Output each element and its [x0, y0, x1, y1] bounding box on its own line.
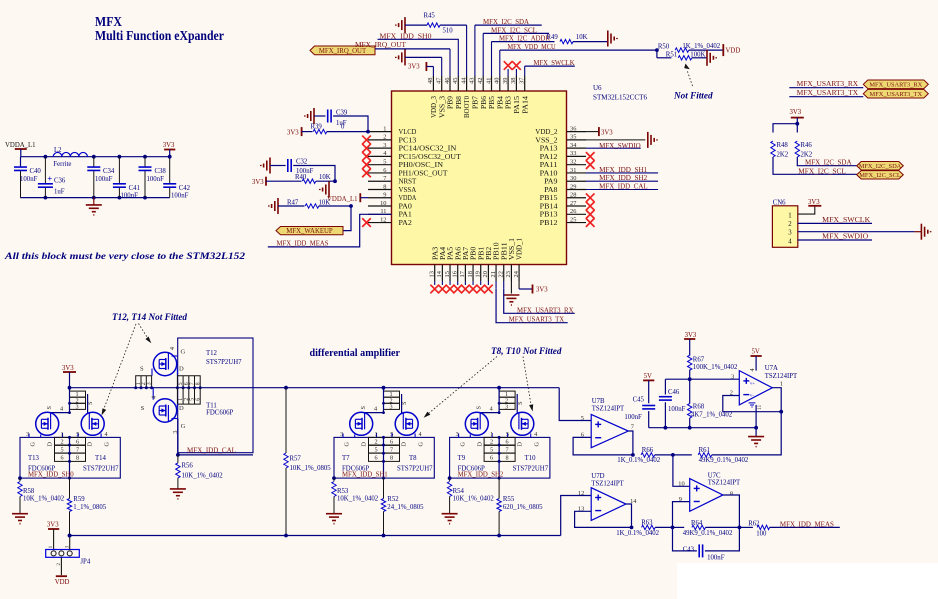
wire T12 source into cells	[151, 369, 153, 376]
svg-text:6: 6	[506, 439, 509, 446]
wire T11 pin4 from rail	[152, 388, 154, 400]
svg-text:T9: T9	[458, 455, 466, 462]
svg-text:5: 5	[506, 431, 509, 438]
node box corner T13/T14	[18, 476, 22, 480]
wire MFX_IDD_SH0 pin45	[378, 38, 459, 40]
svg-text:4: 4	[490, 406, 493, 413]
svg-text:8: 8	[390, 455, 393, 462]
IC right pin stubs	[567, 131, 587, 133]
ground R58	[12, 513, 28, 515]
arrow to T12	[139, 324, 148, 338]
white page margin bottom-right	[677, 563, 938, 599]
svg-text:VDDA_L1: VDDA_L1	[327, 196, 358, 203]
resistor R52	[381, 499, 385, 512]
svg-text:MFX_IDD_CAL: MFX_IDD_CAL	[599, 184, 648, 191]
wire gate row T9/T10	[498, 388, 500, 413]
wire R45 to BOOT0 pin44	[440, 24, 467, 26]
node bottom rail T13/T14	[68, 534, 72, 538]
svg-text:D: D	[179, 405, 184, 412]
svg-text:2: 2	[490, 439, 493, 446]
svg-text:G: G	[344, 442, 351, 447]
transistor T14	[81, 412, 104, 435]
no-connect X right pins 33,32,28,27,26,25	[586, 152, 595, 161]
wire bottom rail	[70, 535, 561, 537]
wire gate right T9/T10	[516, 394, 518, 414]
wire U7A Vminus to ground	[755, 405, 757, 437]
svg-text:24_1%_0805: 24_1%_0805	[387, 504, 424, 511]
svg-text:MFX_WAKEUP: MFX_WAKEUP	[286, 228, 333, 235]
port MFX_I2C_SDA	[857, 162, 904, 171]
svg-text:MFX_USART3_TX: MFX_USART3_TX	[870, 91, 923, 98]
svg-text:100K_1%_0402: 100K_1%_0402	[693, 364, 738, 371]
svg-text:9: 9	[679, 496, 682, 503]
svg-text:PA2: PA2	[399, 219, 413, 227]
wire MFX_VDD_MCU pin40	[500, 49, 657, 51]
power port VDD (R50)	[722, 44, 724, 56]
svg-text:U7C: U7C	[708, 472, 721, 479]
wire JP4 pin2 to VDD	[60, 557, 62, 575]
op-amp U7D	[591, 488, 626, 521]
wire MFX_SWCLK pin37	[525, 65, 575, 67]
svg-text:C42: C42	[179, 185, 191, 192]
svg-text:R53: R53	[337, 488, 349, 495]
svg-text:BOOT0: BOOT0	[463, 96, 471, 118]
pin grid boxes T9/T10	[484, 437, 515, 461]
svg-text:3V3: 3V3	[163, 142, 175, 149]
node box corner T7/T8	[332, 476, 336, 480]
svg-text:U7D: U7D	[591, 473, 604, 480]
wire T12 gate stub	[172, 355, 178, 357]
svg-text:R59: R59	[73, 496, 85, 503]
svg-text:PA15: PA15	[513, 95, 521, 113]
resistor R51 not fitted	[656, 50, 658, 58]
capacitor C32	[270, 165, 286, 167]
ground R56	[170, 488, 186, 490]
svg-text:G: G	[418, 442, 425, 447]
capacitor C40	[20, 157, 22, 167]
svg-text:MFX: MFX	[95, 14, 122, 29]
svg-text:MFX_USART3_RX: MFX_USART3_RX	[869, 82, 922, 89]
svg-text:R47: R47	[287, 200, 299, 207]
power port VDD (JP4)	[56, 575, 67, 577]
wire pin21 to MFX_USART3_TX	[496, 289, 568, 323]
port MFX_USART3_TX	[863, 89, 928, 98]
svg-text:0: 0	[341, 124, 345, 131]
inductor L2	[53, 152, 87, 156]
wire filter bottom rail	[20, 197, 169, 199]
svg-text:MFX_SWCLK: MFX_SWCLK	[822, 217, 870, 224]
svg-text:R66: R66	[642, 447, 654, 454]
transistor T13	[36, 412, 59, 435]
resistor R58	[19, 478, 21, 481]
resistor R47	[278, 205, 305, 207]
svg-text:12: 12	[578, 490, 584, 497]
port MFX_IRQ_OUT	[310, 46, 375, 55]
svg-text:C40: C40	[30, 168, 42, 175]
transistor T8	[395, 412, 418, 435]
svg-text:5: 5	[490, 446, 493, 453]
svg-text:R40: R40	[295, 174, 307, 181]
svg-text:1: 1	[788, 212, 791, 219]
svg-text:S: S	[401, 401, 408, 405]
resistor R62	[739, 526, 753, 528]
op-amp U7C	[690, 479, 723, 512]
power 3V3 pin36	[598, 127, 600, 136]
svg-text:PA9: PA9	[544, 178, 558, 186]
nodes rail at T12 left cells	[134, 386, 137, 389]
svg-text:R54: R54	[453, 488, 465, 495]
ground pin47	[404, 49, 406, 65]
ground pin35 VSS_2	[647, 132, 649, 148]
svg-text:Ferrite: Ferrite	[53, 161, 71, 168]
pin cells right of T12 (upper)	[177, 376, 200, 388]
svg-text:5V: 5V	[644, 373, 652, 380]
svg-text:TSZ124IPT: TSZ124IPT	[591, 480, 624, 487]
wire R46 to SDA port	[797, 157, 856, 166]
resistor R54	[449, 478, 451, 481]
wire U7D pin13 feedback	[575, 511, 632, 527]
svg-text:6: 6	[195, 398, 201, 401]
svg-text:3: 3	[456, 431, 459, 438]
resistor R57	[285, 388, 287, 453]
svg-text:PB6: PB6	[480, 95, 488, 109]
wire PA1 to MFX_IDD_MEAS	[268, 214, 392, 247]
ground for C32	[269, 158, 271, 174]
svg-text:10K_1%_0402: 10K_1%_0402	[182, 472, 224, 479]
svg-text:VDDA_L1: VDDA_L1	[5, 142, 36, 149]
capacitor C46	[664, 379, 666, 394]
wire gate right T7/T8	[401, 394, 403, 414]
svg-text:2: 2	[60, 439, 63, 446]
power 3V3 pin24	[519, 288, 532, 290]
node R63/R64/U7C pin9	[671, 526, 675, 530]
wire C39 to pin1 node	[333, 116, 368, 132]
svg-text:R45: R45	[424, 12, 436, 19]
svg-text:R50: R50	[658, 43, 670, 50]
pin grid boxes T7/T8	[369, 437, 400, 461]
wire bottom rail to U7D pin12	[561, 496, 592, 536]
svg-text:STS7P2UH7: STS7P2UH7	[206, 359, 242, 366]
ground for R49	[607, 31, 609, 47]
svg-text:D: D	[87, 442, 94, 447]
svg-text:VDD_3: VDD_3	[430, 96, 438, 118]
svg-text:100nF: 100nF	[20, 176, 38, 183]
wire pin22 to MFX_USART3_RX	[504, 289, 575, 314]
wire MFX_USART3_TX to port	[789, 96, 863, 98]
wire MFX_I2C_SCL pin42	[483, 32, 549, 34]
svg-text:100nF: 100nF	[95, 176, 113, 183]
svg-text:PA8: PA8	[544, 186, 558, 194]
IC bottom pin stubs	[434, 265, 436, 282]
svg-text:S: S	[87, 401, 94, 405]
CN6 pin2 wire MFX_SWCLK	[798, 222, 872, 224]
node U7D out	[630, 526, 634, 530]
svg-text:C36: C36	[54, 178, 66, 185]
svg-text:PA14: PA14	[521, 95, 529, 113]
CN6 pin4 wire MFX_SWDIO	[798, 239, 872, 241]
node I2C pullup top	[795, 122, 799, 126]
svg-text:PB12: PB12	[540, 219, 558, 227]
svg-text:2K2: 2K2	[777, 152, 789, 159]
no-connect X bottom pins 13-20	[430, 285, 439, 294]
svg-text:MFX_I2C_SDA: MFX_I2C_SDA	[859, 163, 902, 170]
svg-text:T12, T14 Not Fitted: T12, T14 Not Fitted	[112, 312, 187, 322]
node pin1 VLCD	[366, 130, 370, 134]
svg-text:10K: 10K	[576, 34, 588, 41]
svg-text:L2: L2	[54, 147, 62, 154]
pin leads into box T9/T10	[458, 434, 460, 438]
svg-text:100nF: 100nF	[171, 192, 189, 199]
capacitor C41	[118, 155, 122, 159]
transistor T7	[350, 412, 373, 435]
node U7A out	[779, 410, 783, 414]
op-amp U7A	[739, 371, 772, 405]
svg-text:VDD_2: VDD_2	[535, 128, 558, 136]
svg-text:10K_1%_0402: 10K_1%_0402	[23, 496, 65, 503]
node R67 bottom	[688, 377, 692, 381]
capacitor C34	[93, 157, 95, 167]
svg-text:3V3: 3V3	[287, 130, 299, 137]
ground for C39	[313, 108, 315, 124]
svg-text:v-: v-	[750, 393, 754, 398]
resistor R40	[266, 180, 302, 182]
svg-text:3: 3	[146, 382, 152, 385]
node rail feed T7/T8	[382, 386, 386, 390]
svg-text:4: 4	[419, 431, 422, 438]
svg-text:R55: R55	[503, 496, 515, 503]
svg-text:4: 4	[534, 431, 537, 438]
svg-text:MFX_IDD_SH2: MFX_IDD_SH2	[599, 175, 648, 182]
svg-text:MFX_IDD_CAL: MFX_IDD_CAL	[187, 447, 236, 454]
arrow to T10	[523, 357, 531, 405]
svg-text:T11: T11	[206, 403, 217, 410]
svg-text:MFX_I2C_SDA: MFX_I2C_SDA	[805, 160, 852, 167]
svg-text:S: S	[140, 365, 144, 372]
svg-text:3: 3	[172, 431, 179, 434]
svg-text:JP4: JP4	[80, 559, 90, 566]
svg-text:6: 6	[390, 439, 393, 446]
port MFX_I2C_SCL	[857, 171, 904, 179]
svg-text:1_1%_0805: 1_1%_0805	[73, 504, 106, 511]
svg-text:PB13: PB13	[540, 211, 558, 219]
svg-text:100nF: 100nF	[707, 555, 725, 562]
svg-text:8: 8	[730, 491, 733, 498]
svg-text:3: 3	[731, 373, 734, 380]
svg-text:STS7P2UH7: STS7P2UH7	[397, 465, 433, 472]
transistor T10	[511, 412, 534, 435]
resistor R66	[641, 453, 655, 457]
capacitor C38	[143, 155, 147, 159]
svg-text:1: 1	[61, 431, 64, 438]
svg-text:MFX_SWDIO: MFX_SWDIO	[599, 143, 641, 150]
svg-text:PA12: PA12	[540, 153, 558, 161]
svg-text:R62: R62	[748, 521, 760, 528]
svg-text:1uF: 1uF	[54, 189, 65, 196]
op-amp U7B	[591, 414, 628, 447]
capacitor C39	[314, 115, 326, 117]
svg-text:U6: U6	[593, 84, 602, 92]
svg-text:PB15: PB15	[540, 194, 558, 202]
svg-text:2K2: 2K2	[801, 152, 813, 159]
svg-text:5: 5	[581, 415, 584, 422]
svg-text:5: 5	[76, 431, 79, 438]
node U7B out	[631, 453, 635, 457]
svg-text:STS7P2UH7: STS7P2UH7	[83, 465, 119, 472]
svg-text:TSZ124IPT: TSZ124IPT	[765, 373, 798, 380]
outer box T13/T14	[20, 437, 120, 478]
wire gate right T13/T14	[87, 394, 89, 414]
wire U7B output	[628, 431, 633, 455]
ground pin8 VSSA	[328, 182, 330, 198]
wire U7C output	[723, 495, 740, 527]
svg-text:PH1/OSC_OUT: PH1/OSC_OUT	[399, 169, 449, 177]
resistor R46	[796, 124, 798, 133]
svg-text:G: G	[181, 348, 186, 355]
svg-text:R48: R48	[777, 142, 789, 149]
svg-text:100nF: 100nF	[147, 176, 165, 183]
svg-text:VSS_2: VSS_2	[535, 136, 558, 144]
svg-text:49K9_0.1%_0402: 49K9_0.1%_0402	[683, 530, 733, 537]
svg-text:Multi Function eXpander: Multi Function eXpander	[95, 28, 224, 43]
wire analog ground rail	[649, 427, 756, 429]
svg-text:C43: C43	[683, 546, 695, 553]
wire filter top rail	[21, 156, 170, 158]
svg-text:VSSA: VSSA	[399, 186, 417, 194]
svg-text:D: D	[361, 442, 368, 447]
svg-text:U7A: U7A	[765, 365, 778, 372]
svg-text:10K_1%_0805: 10K_1%_0805	[290, 465, 332, 472]
svg-text:3V3: 3V3	[808, 199, 820, 206]
svg-text:+: +	[47, 174, 52, 184]
wire top measure rail	[70, 387, 560, 389]
no-connect X pin 12	[362, 218, 371, 227]
svg-text:7: 7	[76, 446, 79, 453]
pin stack boxes T7/T8	[384, 391, 400, 409]
node R66/R61	[671, 453, 675, 457]
pin stack boxes T13/T14	[70, 391, 86, 409]
svg-text:5: 5	[60, 446, 63, 453]
capacitor C42	[169, 157, 171, 184]
svg-text:R64: R64	[691, 520, 703, 527]
wire center shunt column T7/T8	[383, 437, 385, 478]
node bottom rail T9/T10	[497, 534, 501, 538]
svg-text:4: 4	[105, 431, 108, 438]
jumper JP4 body	[46, 550, 80, 558]
svg-text:2: 2	[788, 221, 792, 228]
IC left pin stubs	[368, 131, 392, 133]
svg-text:4: 4	[169, 347, 176, 350]
svg-text:R39: R39	[311, 124, 323, 131]
node bottom rail T7/T8	[382, 534, 386, 538]
svg-text:G: G	[533, 442, 540, 447]
svg-text:D: D	[516, 442, 523, 447]
svg-text:4: 4	[749, 368, 756, 371]
svg-text:PA13: PA13	[540, 145, 558, 153]
capacitor C45	[648, 380, 650, 403]
wire MFX_IDD_MEAS output	[770, 526, 840, 528]
resistor R59	[67, 499, 71, 512]
svg-text:R46: R46	[801, 142, 813, 149]
svg-text:R52: R52	[387, 496, 399, 503]
capacitor C43	[673, 527, 697, 551]
svg-text:VDD_1: VDD_1	[516, 238, 524, 260]
svg-text:11: 11	[757, 405, 763, 410]
svg-text:G: G	[104, 442, 111, 447]
svg-text:C34: C34	[103, 168, 115, 175]
svg-text:R49: R49	[547, 34, 559, 41]
svg-text:R56: R56	[182, 462, 194, 469]
transistor T12	[153, 352, 176, 375]
svg-text:D: D	[476, 442, 483, 447]
svg-text:T12: T12	[206, 350, 218, 357]
svg-text:7: 7	[506, 446, 509, 453]
svg-text:5: 5	[374, 446, 377, 453]
svg-text:VDD: VDD	[726, 48, 741, 55]
ground glyph U7A pin11	[749, 403, 756, 407]
svg-text:S: S	[360, 406, 367, 410]
arrow to T8	[429, 357, 497, 414]
svg-text:VLCD: VLCD	[399, 128, 417, 136]
svg-text:T14: T14	[95, 455, 107, 462]
svg-text:PH0/OSC_IN: PH0/OSC_IN	[399, 161, 444, 169]
svg-text:G: G	[181, 423, 186, 430]
svg-text:D: D	[47, 442, 54, 447]
resistor R45	[405, 24, 427, 26]
svg-text:3V3: 3V3	[685, 332, 697, 339]
wire gate row T13/T14	[69, 388, 71, 413]
svg-text:R68: R68	[693, 403, 705, 410]
svg-text:3: 3	[788, 230, 792, 237]
resistor R39	[302, 131, 313, 133]
node U7C out	[738, 526, 742, 530]
resistor R64	[673, 526, 685, 528]
svg-text:MFX_I2C_SCL: MFX_I2C_SCL	[798, 168, 846, 175]
svg-text:CN6: CN6	[773, 199, 786, 206]
svg-text:MFX_USART3_RX: MFX_USART3_RX	[517, 307, 574, 314]
svg-text:R51: R51	[666, 51, 677, 58]
svg-text:1K_0.1%_0402: 1K_0.1%_0402	[616, 530, 659, 537]
svg-text:T7: T7	[342, 455, 350, 462]
wire U7A output	[772, 388, 781, 412]
node bottom rail R57	[284, 534, 288, 538]
wire MFX_I2C_SDA pin43	[475, 24, 542, 26]
CN6 pin3 wire to ground	[798, 231, 915, 233]
svg-text:C41: C41	[129, 185, 140, 192]
connector CN6 body	[772, 206, 797, 248]
svg-text:S: S	[46, 406, 53, 410]
ground R53	[326, 513, 342, 515]
svg-text:STS7P2UH7: STS7P2UH7	[513, 465, 549, 472]
svg-text:PC14/OSC32_IN: PC14/OSC32_IN	[399, 145, 457, 153]
wire pin47 to ground	[405, 56, 442, 58]
svg-text:R63: R63	[641, 519, 653, 526]
svg-text:C46: C46	[668, 389, 680, 396]
wire center shunt column T13/T14	[69, 437, 71, 478]
svg-text:MFX_USART3_RX: MFX_USART3_RX	[797, 81, 859, 88]
svg-text:3V3: 3V3	[62, 365, 74, 372]
svg-text:5V: 5V	[752, 349, 760, 356]
resistor R55	[497, 499, 501, 512]
svg-text:FDC606P: FDC606P	[206, 410, 233, 417]
node NRST pin7	[333, 179, 337, 183]
svg-text:8: 8	[506, 455, 509, 462]
pin leads into box T13/T14	[28, 434, 30, 438]
svg-text:3V3: 3V3	[252, 179, 264, 186]
svg-text:10K_1%_0402: 10K_1%_0402	[337, 496, 379, 503]
ground for R47	[277, 198, 279, 214]
svg-text:10K_1%_0402: 10K_1%_0402	[453, 496, 495, 503]
arrow Not Fitted to R51	[687, 70, 693, 86]
